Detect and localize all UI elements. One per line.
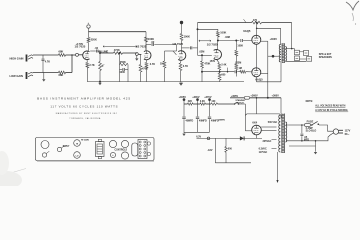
svg-text:A 117V AC 60 CYCLE SOURCE: A 117V AC 60 CYCLE SOURCE bbox=[315, 109, 348, 112]
resistor R17 cathode V4 2.4K bbox=[217, 59, 227, 71]
resistor R11 100K plate V3 bbox=[180, 34, 190, 41]
svg-text:2.7K: 2.7K bbox=[183, 65, 188, 68]
node V4 plate bbox=[217, 40, 219, 42]
label -18V bbox=[207, 149, 212, 152]
capacitor C10 40MFD bbox=[208, 104, 219, 132]
terminal tap 3 bbox=[208, 98, 211, 104]
layout pilot lamp bbox=[57, 146, 64, 152]
signal arrow driver bbox=[199, 40, 211, 42]
signal arrow preamp bbox=[103, 46, 137, 48]
svg-text:100K: 100K bbox=[220, 31, 226, 34]
svg-text:117VAC: 117VAC bbox=[259, 151, 268, 154]
resistor R21 22K filter bbox=[188, 100, 194, 105]
label V6 6AQ5 bbox=[255, 77, 263, 81]
svg-text:+305V: +305V bbox=[231, 95, 239, 98]
wire bias bottom rail bbox=[215, 162, 251, 164]
wire bias mid bbox=[235, 56, 237, 64]
svg-text:6.3V: 6.3V bbox=[196, 135, 201, 138]
label +300V tap bbox=[192, 96, 200, 99]
layout speaker hole bbox=[41, 141, 49, 149]
resistor R6 470K bbox=[114, 49, 123, 54]
note line 2 bbox=[315, 109, 348, 112]
label SLO-BLO bbox=[306, 130, 317, 133]
wire rail to screen line bbox=[256, 22, 258, 29]
resistor R15 100K bias upper bbox=[235, 44, 243, 56]
label 6.3VAC bbox=[259, 148, 267, 151]
resistor R23 100 filter bbox=[211, 100, 218, 105]
resistor R14 100K plate V4 bbox=[217, 29, 227, 37]
title line 4 bbox=[69, 117, 101, 120]
wire J2 tip to R2 bbox=[33, 72, 59, 74]
scan scratch bottom left bbox=[0, 151, 26, 189]
capacitor C5 .02M coupling V3 bbox=[182, 46, 205, 53]
svg-text:LOW GAIN: LOW GAIN bbox=[10, 74, 24, 78]
label SPEAKERS bbox=[319, 56, 332, 59]
resistor R4 100K plate V2 bbox=[145, 37, 155, 42]
label V3 1/2 7025 bbox=[172, 42, 183, 46]
layout grommet 2 bbox=[147, 152, 150, 155]
terminal B+ node dot bbox=[180, 21, 183, 24]
wire screen line bbox=[256, 28, 281, 30]
svg-text:40MFD: 40MFD bbox=[199, 120, 207, 123]
wire R2 to grid riser bbox=[66, 72, 73, 74]
label V5 6AQ5 bbox=[243, 29, 251, 33]
node bias upper bbox=[235, 40, 237, 42]
wire mains upper 2 bbox=[319, 125, 333, 131]
svg-text:150V: 150V bbox=[210, 60, 216, 63]
label SWITCH bbox=[235, 102, 244, 104]
wire B+ drop bbox=[181, 24, 183, 34]
capacitor C11 .05MFD bbox=[300, 124, 309, 141]
resistor R3 220K plate V1 bbox=[87, 38, 97, 43]
svg-text:500 VAC: 500 VAC bbox=[268, 121, 278, 124]
svg-text:117 VOLTS 60 CYCLES 110 WATTS: 117 VOLTS 60 CYCLES 110 WATTS bbox=[50, 104, 118, 108]
wire plate to V4 bbox=[217, 41, 219, 50]
svg-text:1/2 7025: 1/2 7025 bbox=[172, 42, 183, 46]
layout jack HI bbox=[74, 140, 81, 147]
layout socket 1 bbox=[110, 152, 115, 157]
label FUSE bbox=[307, 120, 314, 123]
svg-text:LO: LO bbox=[76, 155, 79, 157]
wire secondary bottom bbox=[285, 60, 306, 62]
svg-text:100K: 100K bbox=[184, 35, 190, 39]
label 20MFD bbox=[218, 119, 225, 121]
jack SPK tip bbox=[295, 49, 300, 55]
capacitor C1 input bbox=[42, 55, 51, 73]
node V4 grid bbox=[201, 54, 203, 56]
svg-text:100: 100 bbox=[211, 100, 216, 103]
capacitor C8 40MFD bbox=[182, 104, 193, 132]
wire R4 to V2 plate bbox=[145, 42, 147, 50]
rail screen B+ bbox=[198, 22, 292, 24]
transformer T1 core bbox=[282, 43, 284, 63]
svg-text:MANUFACTURED BY KENT ELECTRONI: MANUFACTURED BY KENT ELECTRONICS INC bbox=[56, 112, 118, 115]
resistor R20 470 screen bbox=[252, 19, 262, 24]
layout power transformer bbox=[138, 140, 147, 159]
wire tone branch 1 bbox=[119, 52, 121, 65]
label +170V bbox=[76, 42, 84, 46]
layout capacitor can bbox=[132, 143, 138, 156]
wire OT bottom riser bbox=[280, 63, 282, 82]
scan speck bbox=[88, 23, 89, 24]
wire V3 cathode to bus bbox=[180, 71, 182, 82]
label 500 VAC bbox=[268, 121, 278, 124]
wire R3 to B+ rail bbox=[88, 32, 90, 38]
wire mains lower bbox=[286, 133, 333, 141]
layout fuse post bbox=[42, 151, 49, 157]
wire plate bus vertical bbox=[267, 41, 269, 98]
resistor R12 cathode V3 2.7K bbox=[179, 60, 188, 70]
svg-text:600: 600 bbox=[228, 148, 233, 151]
terminal tap 1 bbox=[183, 98, 186, 104]
wire rectifier cathode left bbox=[245, 126, 251, 131]
svg-text:+170V: +170V bbox=[76, 42, 84, 46]
jack SPK sleeve bbox=[295, 56, 300, 61]
jack J2 LOW GAIN bbox=[27, 72, 34, 79]
label SPK and EXT bbox=[319, 53, 332, 56]
label +270V tap bbox=[204, 96, 212, 99]
jack EXT sleeve bbox=[299, 57, 311, 62]
wire V6 plate bbox=[261, 73, 268, 75]
terminal heater ring bbox=[207, 137, 210, 140]
ground filter caps bbox=[182, 132, 185, 136]
layout output transformer bbox=[96, 139, 105, 158]
wire rectifier top bbox=[256, 97, 258, 114]
wire J1 tip to R1 bbox=[33, 54, 59, 56]
resistor R1 68K bbox=[59, 49, 66, 56]
wire R1 to grid node bbox=[66, 54, 76, 56]
svg-text:2.4K: 2.4K bbox=[221, 63, 226, 66]
wire bias drop 1 bbox=[214, 138, 216, 162]
wire tap 5V bbox=[272, 139, 277, 141]
capacitor C7 to V6 grid bbox=[235, 70, 240, 73]
svg-text:250K: 250K bbox=[120, 61, 126, 64]
note line 1 bbox=[315, 105, 346, 108]
svg-text:40MFD: 40MFD bbox=[185, 120, 193, 123]
resistor R5 cathode V1 2.7K bbox=[86, 59, 95, 68]
svg-text:CONTROLS: CONTROLS bbox=[115, 150, 128, 152]
node volume top bbox=[99, 52, 101, 54]
wire cathode tee bbox=[201, 71, 234, 73]
wire pot to bus bbox=[99, 71, 101, 83]
wire rectifier plate 2 bbox=[261, 130, 276, 132]
transformer T2 secondary winding bbox=[279, 115, 281, 152]
wire plate feed V4 bbox=[197, 28, 218, 30]
terminal B+ 170V ring bbox=[87, 25, 90, 32]
resistor R2 68K bbox=[59, 71, 66, 77]
wire tap 6.3V bbox=[272, 148, 277, 150]
switch standby bbox=[234, 102, 245, 105]
node B+ plate bus bbox=[267, 97, 269, 99]
resistor R10 1M grid leak V3 bbox=[160, 51, 166, 82]
svg-text:600: 600 bbox=[221, 74, 226, 77]
label 2 AMP bbox=[306, 127, 314, 130]
layout control 1 bbox=[109, 140, 116, 147]
wire volume top run bbox=[100, 52, 114, 54]
label 60 cy bbox=[345, 133, 351, 136]
wire V5 plate bbox=[261, 40, 268, 42]
resistor R7 250K tone bbox=[120, 61, 129, 66]
title line 1 bbox=[37, 97, 131, 101]
rail B+ preamp bbox=[89, 31, 147, 33]
jack J1 HIGH GAIN bbox=[27, 55, 34, 62]
transformer T1 secondary winding bbox=[285, 47, 286, 62]
svg-text:6X4: 6X4 bbox=[252, 121, 257, 125]
potentiometer VOLUME 500K bbox=[99, 53, 105, 71]
svg-text:VOLUME: VOLUME bbox=[98, 50, 109, 53]
svg-text:NOTE:: NOTE: bbox=[306, 100, 314, 103]
tube V3 1/2 7025 bbox=[178, 51, 186, 61]
resistor R9 cathode V2 2.7K bbox=[145, 60, 155, 68]
svg-text:1M: 1M bbox=[239, 67, 242, 70]
jack EXT tip bbox=[299, 50, 308, 55]
svg-text:HIGH GAIN: HIGH GAIN bbox=[10, 57, 24, 61]
svg-text:FUSE: FUSE bbox=[307, 120, 314, 123]
tube V4 1/2 7025 bbox=[214, 50, 222, 60]
svg-text:+300V: +300V bbox=[270, 38, 278, 41]
transformer T2 primary winding bbox=[285, 122, 286, 142]
ground preamp bus bbox=[98, 82, 101, 86]
wire V6 return line bbox=[257, 81, 282, 83]
svg-text:+300V: +300V bbox=[192, 96, 200, 99]
switch S1 bbox=[311, 121, 319, 125]
svg-text:+305V: +305V bbox=[179, 96, 187, 99]
svg-text:TORRANCE, CALIFORNIA: TORRANCE, CALIFORNIA bbox=[69, 117, 101, 120]
tube V7 6X4 bbox=[252, 125, 262, 135]
svg-text:2.7K: 2.7K bbox=[89, 64, 94, 67]
svg-text:.02M: .02M bbox=[225, 36, 230, 39]
label 6.3V bbox=[196, 135, 201, 138]
wire OT center tap bbox=[268, 55, 280, 58]
label STANDBY bbox=[235, 99, 246, 102]
node V4 cathode bbox=[219, 71, 221, 73]
resistor R24 600 bias bbox=[225, 138, 233, 162]
bus preamp ground bbox=[87, 81, 164, 83]
label V7 6X4 bbox=[252, 121, 257, 125]
resistor R19 grid stopper V6 bbox=[240, 70, 252, 73]
svg-text:.022M: .022M bbox=[235, 61, 242, 64]
wire grid riser bbox=[71, 54, 73, 72]
svg-text:INPUT: INPUT bbox=[63, 146, 70, 148]
svg-text:470K: 470K bbox=[142, 68, 148, 71]
wire between output tubes bbox=[255, 44, 257, 68]
resistor R22 2.2K filter bbox=[200, 100, 206, 105]
ground symbol bus bbox=[179, 82, 183, 86]
tube V2 1/2 7025 bbox=[144, 51, 151, 60]
fuse F1 bbox=[304, 124, 310, 127]
plug AC bbox=[333, 129, 343, 134]
wire mains ground drop bbox=[315, 140, 317, 152]
svg-text:BASS INSTRUMENT AMPLIFIER MODE: BASS INSTRUMENT AMPLIFIER MODEL 425 bbox=[37, 97, 131, 101]
wire V5 top stem bbox=[256, 28, 258, 35]
node V2 grid ring bbox=[135, 53, 138, 56]
label V1 1/2 7025 bbox=[75, 44, 86, 48]
svg-text:-18V: -18V bbox=[207, 149, 212, 152]
node grid V1 ring bbox=[76, 53, 79, 56]
svg-text:325VAC: 325VAC bbox=[263, 140, 272, 143]
ground chassis mains bbox=[314, 152, 317, 154]
label +360V bbox=[250, 95, 258, 98]
transformer T2 core bbox=[282, 114, 285, 154]
title line 3 bbox=[56, 112, 118, 115]
label +305V tap bbox=[179, 96, 187, 99]
svg-text:20MFD: 20MFD bbox=[218, 119, 225, 121]
wire rectifier plate 1 bbox=[261, 126, 276, 128]
diode D1 bbox=[240, 136, 244, 140]
svg-text:1/2 7025: 1/2 7025 bbox=[207, 42, 218, 46]
wire B+ 360V line bbox=[230, 97, 281, 99]
svg-text:SWITCH: SWITCH bbox=[235, 102, 244, 104]
title line 2 bbox=[50, 104, 118, 108]
label 150V bbox=[210, 60, 216, 63]
wire mid riser bbox=[197, 23, 199, 56]
wire rectifier cathode bbox=[256, 135, 258, 139]
label LOW GAIN input bbox=[10, 74, 24, 78]
transformer T1 primary winding bbox=[279, 44, 281, 62]
svg-text:.02M: .02M bbox=[199, 50, 205, 53]
label 117VAC bbox=[259, 151, 268, 154]
wire bias line bbox=[197, 137, 263, 139]
chassis panel outline bbox=[36, 138, 155, 162]
wire rail corner to R4 bbox=[145, 32, 147, 37]
layout control 2 bbox=[121, 140, 128, 147]
scan scribble top right bbox=[346, 1, 359, 25]
svg-text:100K: 100K bbox=[237, 44, 243, 47]
svg-text:MFD: MFD bbox=[304, 138, 309, 141]
svg-text:+270V: +270V bbox=[204, 96, 212, 99]
stub junction bbox=[227, 68, 229, 73]
svg-text:470K: 470K bbox=[114, 49, 120, 52]
svg-text:4.7K: 4.7K bbox=[45, 61, 50, 64]
wire R11 to V3 plate bbox=[181, 41, 183, 51]
tube V6 6AQ5 bbox=[252, 68, 261, 77]
label VOLUME bbox=[98, 50, 109, 53]
svg-text:SPEAKERS: SPEAKERS bbox=[319, 56, 332, 59]
label .022M bbox=[235, 61, 242, 64]
svg-text:.02: .02 bbox=[151, 41, 155, 44]
svg-text:2.2K: 2.2K bbox=[200, 100, 205, 103]
svg-text:68K: 68K bbox=[59, 49, 64, 53]
svg-text:1M: 1M bbox=[160, 63, 163, 66]
label +305V bbox=[231, 95, 239, 98]
svg-text:22K: 22K bbox=[188, 100, 193, 103]
label +300V bbox=[270, 38, 278, 41]
tube V5 6AQ5 bbox=[252, 35, 261, 44]
ground input jacks bbox=[42, 73, 45, 82]
wire C4 to V3 grid bbox=[165, 45, 177, 52]
capacitor C9 40MFD bbox=[196, 104, 207, 132]
wire grid line V5 bbox=[218, 40, 240, 42]
resistor R13 470K grid leak V4 bbox=[201, 55, 211, 81]
wire to V2 grid bbox=[138, 53, 141, 55]
wire grid node to V1 bbox=[79, 54, 83, 56]
capacitor C2 .02 coupling V1 bbox=[90, 47, 100, 53]
svg-text:2.7K: 2.7K bbox=[150, 63, 155, 66]
wire rail to rectifier loop bbox=[244, 104, 246, 115]
wire mains bottom bbox=[289, 145, 316, 147]
wire riser to V4 grid bbox=[198, 54, 212, 56]
wire center tap down bbox=[276, 152, 278, 183]
wire bias bottom bbox=[235, 70, 237, 77]
svg-text:HI GAIN: HI GAIN bbox=[81, 138, 89, 141]
ground bus preamp2 bbox=[165, 81, 245, 83]
wire V1 cathode to bus bbox=[86, 68, 88, 82]
svg-text:68K: 68K bbox=[59, 73, 64, 77]
wire NFB corner bbox=[291, 23, 293, 49]
label +360V right bbox=[272, 95, 280, 98]
label 5.0VAC bbox=[263, 140, 272, 143]
wire R6 to V2 grid node bbox=[123, 52, 137, 54]
wire secondary top bbox=[285, 48, 294, 50]
wire R14 to plate node bbox=[217, 37, 219, 41]
capacitor C4 .02 coupling V2 bbox=[146, 41, 177, 51]
svg-text:6AQ5: 6AQ5 bbox=[243, 29, 251, 33]
tube V1 1/2 7025 bbox=[83, 51, 90, 60]
layout grommet 1 bbox=[147, 142, 150, 145]
layout jack LO bbox=[74, 152, 81, 159]
resistor R8 470K grid leak V2 bbox=[139, 54, 148, 81]
layout label INPUT bbox=[63, 146, 70, 148]
fuse B+ capsule bbox=[244, 96, 249, 99]
label HIGH GAIN input bbox=[10, 57, 24, 61]
svg-text:1000: 1000 bbox=[119, 71, 125, 74]
svg-text:ALL VOLTAGES READ WITH: ALL VOLTAGES READ WITH bbox=[315, 105, 346, 108]
tick mark rail bbox=[244, 19, 246, 22]
svg-text:+360V: +360V bbox=[272, 95, 280, 98]
resistor R18 600 to bus bbox=[218, 72, 226, 82]
layout label HI GAIN bbox=[81, 138, 89, 141]
ground V2 grid bbox=[135, 55, 138, 60]
label .02M upper bbox=[225, 36, 230, 39]
wire rectifier loop top bbox=[245, 114, 281, 126]
resistor R16 1M bias lower bbox=[235, 64, 242, 70]
wire V1 plate riser bbox=[87, 43, 89, 52]
wire V3 grid stub bbox=[173, 51, 176, 55]
svg-text:SLO-BLO: SLO-BLO bbox=[306, 130, 317, 133]
wire B+ to PT bbox=[280, 98, 282, 114]
layout label CONTROLS bbox=[115, 150, 128, 152]
capacitor C6 coupling V5 bbox=[241, 39, 252, 42]
wire bias column top bbox=[235, 41, 237, 51]
wire screen drop to OT bbox=[280, 28, 282, 44]
bus filter ground bbox=[184, 131, 210, 133]
svg-text:1/2 7025: 1/2 7025 bbox=[136, 44, 147, 48]
label NOTE bbox=[306, 100, 314, 103]
wire V6 bottom stem bbox=[255, 77, 257, 82]
wire V2 cathode to bus bbox=[146, 68, 148, 82]
wire mains upper bbox=[286, 124, 304, 126]
wire tone branch 2 bbox=[119, 65, 121, 82]
label V4 1/2 7025 bbox=[207, 42, 218, 46]
layout socket 2 bbox=[121, 152, 128, 159]
svg-text:40MFD: 40MFD bbox=[211, 120, 219, 123]
rail filter bbox=[184, 103, 234, 105]
wire tone branch 3 bbox=[127, 65, 129, 82]
label 117V bbox=[345, 130, 351, 133]
terminal tap 2 bbox=[196, 98, 199, 104]
label V2 1/2 7025 bbox=[136, 44, 147, 48]
capacitor C3 1000 tone bbox=[119, 68, 128, 74]
svg-text:220K: 220K bbox=[91, 38, 97, 42]
